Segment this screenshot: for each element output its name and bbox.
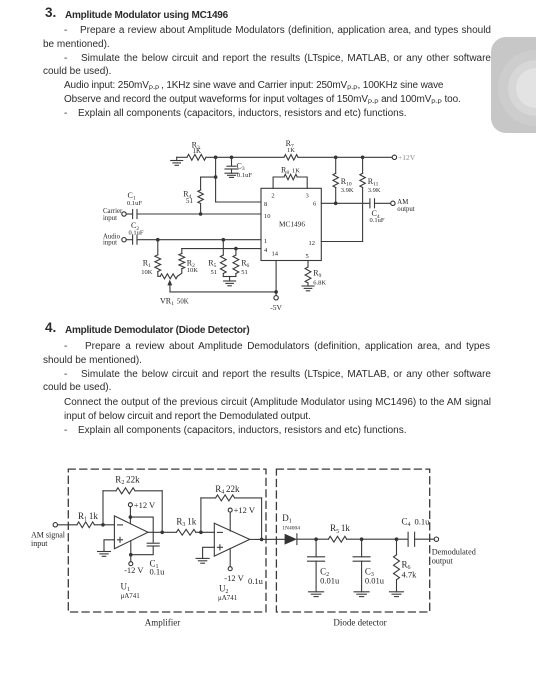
resistor R5 51: [222, 240, 224, 255]
resistor R3 1K: [187, 154, 206, 160]
svg-text:0.1uF: 0.1uF: [370, 217, 385, 224]
svg-text:10: 10: [264, 213, 271, 220]
svg-text:R4 22k: R4 22k: [215, 484, 240, 496]
wire R1 to op-amp: [94, 524, 114, 526]
svg-text:2: 2: [271, 193, 274, 200]
wire pin 12 to R11: [321, 241, 362, 243]
bullet 2: [64, 368, 67, 382]
node: U2 output: [260, 538, 264, 542]
svg-text:R5 1k: R5 1k: [330, 523, 350, 535]
bullet 3: [64, 107, 67, 121]
svg-text:-12 V: -12 V: [124, 565, 144, 575]
capacitor C1 0.1u bypass: [130, 517, 153, 542]
resistor R10 3.9K: [335, 157, 337, 173]
op-amp IC MC1496 box: [261, 188, 321, 260]
+12 V terminal U2: [228, 508, 232, 512]
svg-text:1K: 1K: [193, 147, 202, 155]
schematic 1: MC1496 amplitude modulator: [0, 135, 536, 320]
resistor R9 6.8K (pin 5): [307, 261, 309, 268]
svg-text:R6: R6: [241, 258, 251, 269]
svg-text:+12 V: +12 V: [134, 500, 156, 510]
node: bypass joins -12V wire: [129, 553, 133, 557]
-5V terminal: [274, 296, 278, 300]
svg-text:51: 51: [211, 269, 218, 276]
svg-text:C3: C3: [237, 161, 247, 172]
ground U2 + input: [203, 547, 215, 558]
node: bypass tap on +12V: [129, 515, 133, 519]
svg-text:5: 5: [306, 253, 309, 260]
heading 3: [45, 6, 56, 20]
node: R5 top: [222, 238, 226, 242]
wire R5 to n2: [347, 538, 408, 540]
svg-text:0.1u: 0.1u: [415, 517, 431, 527]
node: rail junction to R4 branch: [214, 156, 218, 160]
svg-text:input: input: [103, 239, 117, 246]
svg-text:input: input: [31, 539, 48, 548]
ground (R5/R6): [229, 277, 231, 282]
resistor R11 3.9K: [362, 157, 364, 173]
wire carrier to pin 10: [137, 213, 261, 215]
heading 4: [45, 321, 56, 335]
svg-text:12: 12: [309, 240, 316, 247]
svg-text:10K: 10K: [141, 269, 153, 276]
wire pin8: [215, 177, 217, 202]
node: R1 top: [156, 238, 160, 242]
svg-text:R9: R9: [313, 269, 323, 280]
potentiometer VR1 50K: [160, 274, 177, 279]
resistor R1 10K: [157, 240, 159, 255]
svg-text:R5: R5: [208, 258, 218, 269]
wire pin 4 line: [182, 248, 261, 250]
svg-text:μA741: μA741: [121, 592, 141, 600]
svg-text:51: 51: [241, 269, 248, 276]
capacitor C1 0.1uF: [126, 213, 132, 215]
audio input terminal: [122, 238, 126, 242]
node: U1 output: [160, 531, 164, 535]
svg-text:C4: C4: [402, 517, 413, 529]
svg-text:D1: D1: [282, 513, 293, 525]
svg-text:R3 1k: R3 1k: [176, 517, 196, 529]
svg-text:3.9K: 3.9K: [341, 187, 354, 194]
svg-text:VR1 50K: VR1 50K: [160, 297, 189, 308]
svg-text:51: 51: [186, 197, 194, 205]
wire ground to R3: [177, 156, 187, 158]
svg-text:output: output: [432, 556, 454, 565]
wire C4 to output: [415, 538, 435, 540]
bullet 3: [64, 424, 67, 438]
node: R10 on rail: [334, 156, 338, 160]
node: R4 loop junction: [214, 175, 218, 179]
svg-text:Demodulated: Demodulated: [432, 548, 476, 557]
svg-text:0.01u: 0.01u: [365, 576, 385, 586]
svg-text:R1: R1: [143, 258, 153, 269]
node: wiper line joins -5V line: [274, 290, 278, 294]
gray widget blob: [491, 37, 536, 133]
op-amp U1: [114, 516, 148, 549]
wire R3 to U2: [196, 531, 215, 533]
+12 V terminal U1: [128, 503, 132, 507]
resistor R6 51: [235, 249, 237, 255]
svg-text:+12V: +12V: [398, 153, 416, 162]
svg-text:-12 V: -12 V: [224, 573, 244, 583]
resistor R2 10K: [181, 249, 183, 254]
svg-text:1K: 1K: [287, 147, 295, 154]
resistor R5 1k: [328, 536, 346, 542]
resistor R4 51: [200, 177, 202, 190]
wire U2 out to diode: [250, 538, 285, 540]
svg-text:output: output: [397, 206, 414, 213]
wire pin 6 line: [321, 202, 370, 204]
ground U1 + input: [104, 540, 114, 552]
svg-text:R8 1K: R8 1K: [281, 165, 300, 176]
capacitor C3 0.1uF: [231, 157, 233, 166]
AM signal input terminal: [53, 523, 57, 527]
dashed box: Amplifier: [68, 469, 266, 612]
op-amp U2: [214, 523, 249, 556]
node: R11 on rail: [361, 156, 365, 160]
dashed box: Diode detector: [276, 469, 429, 612]
svg-text:1: 1: [264, 238, 267, 245]
svg-text:14: 14: [272, 251, 279, 258]
capacitor C4 0.1u: [407, 532, 409, 546]
svg-text:Amplifier: Amplifier: [145, 618, 181, 628]
capacitor C2 0.01u: [315, 539, 317, 557]
svg-text:R1 1k: R1 1k: [78, 511, 98, 523]
wire R3 to +12V rail: [206, 156, 284, 158]
carrier input terminal: [122, 212, 126, 216]
wire input to R1: [58, 524, 77, 526]
diode D1 1N4004: [285, 534, 297, 545]
wire pin 14 to -5V: [275, 261, 277, 296]
Demodulated output terminal: [434, 537, 438, 541]
resistor R2 22k feedback: [102, 491, 104, 525]
VR1 wiper arrow: [167, 280, 172, 286]
svg-text:6: 6: [313, 201, 317, 208]
wire R7 to +12V terminal: [298, 156, 392, 158]
wire U1 out to R3: [148, 531, 176, 533]
wire wiper to -5V line: [170, 291, 276, 293]
wire diode to C2 node: [297, 538, 329, 540]
-12 V terminal U2: [229, 549, 231, 567]
node: detector n1: [314, 537, 318, 541]
ground (left of R3): [176, 157, 178, 160]
svg-text:4.7k: 4.7k: [402, 570, 418, 580]
svg-text:0.01u: 0.01u: [320, 576, 340, 586]
svg-text:Diode detector: Diode detector: [333, 618, 386, 628]
resistor R3 1k: [176, 529, 195, 535]
svg-text:6.8K: 6.8K: [313, 280, 326, 287]
svg-text:input: input: [103, 215, 117, 222]
resistor R8 1K (pins 2-3 loop): [273, 177, 284, 188]
capacitor C3 0.01u: [361, 539, 363, 557]
bullet 2: [64, 52, 67, 66]
svg-text:+12 V: +12 V: [234, 505, 256, 515]
node: detector n2: [360, 537, 364, 541]
svg-text:μA741: μA741: [218, 594, 238, 602]
wire rail down to R4 loop: [215, 157, 217, 177]
node: R6 top: [234, 247, 238, 251]
wire audio to pin 1: [137, 239, 261, 241]
node: U2 inverting input: [199, 531, 203, 535]
schematic 2: amplifier + diode detector: [0, 455, 536, 635]
svg-text:4: 4: [264, 247, 268, 254]
node: R10 bottom on pin6 line: [334, 202, 338, 206]
resistor R4 22k feedback: [200, 498, 202, 532]
svg-text:3.9K: 3.9K: [368, 187, 381, 194]
wire to R4 top: [201, 176, 216, 178]
capacitor C2 0.1uF: [126, 239, 132, 241]
wire R5-R6 bottoms: [223, 276, 236, 278]
svg-text:0.1u: 0.1u: [150, 566, 166, 576]
svg-text:-5V: -5V: [270, 303, 282, 312]
resistor R6 4.7k: [396, 539, 398, 555]
svg-text:1N4004: 1N4004: [282, 526, 300, 532]
resistor R1 1k: [77, 522, 95, 528]
svg-text:8: 8: [264, 201, 267, 208]
node: detector n3: [395, 537, 399, 541]
svg-text:0.1u: 0.1u: [248, 576, 264, 586]
AM output terminal: [391, 201, 395, 205]
node: R4 bottom on carrier line: [199, 212, 203, 216]
node: U1 inverting input: [101, 523, 105, 527]
-12 V terminal U1: [130, 541, 132, 562]
svg-text:3: 3: [306, 193, 309, 200]
svg-text:R2 22k: R2 22k: [115, 475, 140, 487]
svg-text:0.1uF: 0.1uF: [127, 200, 142, 207]
resistor R7 1K: [284, 155, 298, 160]
bullet 1: [64, 24, 67, 38]
svg-text:10K: 10K: [187, 267, 199, 274]
svg-text:0.1uF: 0.1uF: [129, 229, 144, 236]
+12V terminal: [392, 155, 396, 159]
svg-text:MC1496: MC1496: [279, 220, 305, 229]
node: C3 on rail: [230, 156, 234, 160]
bullet 1: [64, 340, 67, 354]
capacitor C4 0.1uF: [369, 199, 371, 208]
svg-text:0.1uF: 0.1uF: [237, 172, 252, 179]
wire R11 down to pin12 line: [362, 188, 364, 242]
